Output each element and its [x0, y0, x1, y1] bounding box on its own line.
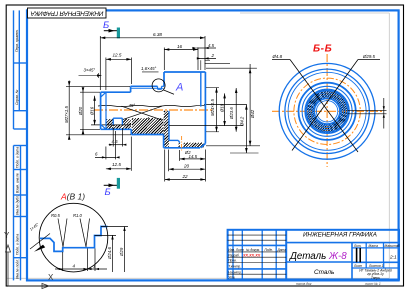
svg-text:Дата: Дата	[277, 248, 287, 252]
svg-text:3×45°: 3×45°	[84, 67, 96, 72]
dimension: 12.5 top left	[106, 58, 131, 91]
svg-text:Листов 1: Листов 1	[368, 264, 383, 268]
dimension: 22 bottom	[165, 150, 206, 182]
svg-text:Ø29: Ø29	[119, 247, 124, 257]
left table verticals	[232, 230, 234, 280]
small width dimension right of section	[348, 98, 387, 129]
section marker B bottom	[104, 178, 120, 198]
chamfer line left cylinder	[105, 92, 107, 129]
svg-text:Ø42: Ø42	[250, 109, 255, 119]
svg-text:14.5: 14.5	[189, 154, 198, 159]
svg-text:20: 20	[183, 164, 190, 169]
right rotated dimension M24x1.5	[216, 88, 218, 132]
svg-text:Масса: Масса	[369, 244, 379, 248]
svg-text:Сталь: Сталь	[314, 269, 334, 276]
svg-text:Н.контр.: Н.контр.	[228, 271, 242, 275]
svg-text:Подп. и дата: Подп. и дата	[16, 147, 20, 168]
orange centerline main view	[94, 109, 214, 111]
left rotated dimension D20	[82, 90, 84, 132]
svg-text:М27×1.5: М27×1.5	[64, 106, 69, 123]
detail dimension D29	[101, 227, 128, 273]
left strip upper box (graph columns)	[14, 10, 28, 129]
svg-text:X: X	[48, 273, 54, 282]
dimension: 2 top right	[198, 57, 216, 59]
left rotated dimension M27x1.5	[66, 81, 131, 138]
svg-text:1,6×45°: 1,6×45°	[141, 66, 157, 71]
right rotated dimension D18	[224, 93, 226, 126]
svg-text:Б: Б	[105, 187, 111, 198]
svg-text:Разраб.: Разраб.	[228, 253, 240, 257]
svg-text:2:1: 2:1	[389, 254, 397, 260]
svg-text:Тверь: Тверь	[371, 276, 380, 280]
svg-text:Б: Б	[103, 20, 109, 31]
svg-text:22: 22	[182, 174, 189, 179]
svg-text:Взам. инв.№: Взам. инв.№	[16, 173, 20, 193]
svg-text:ХХ.ХХ.ХХ: ХХ.ХХ.ХХ	[242, 253, 261, 257]
left table blue rows	[228, 244, 287, 246]
svg-text:Ø29.5: Ø29.5	[362, 54, 376, 59]
svg-text:Инв.№ дубл.: Инв.№ дубл.	[16, 195, 20, 215]
svg-text:Y: Y	[4, 231, 10, 240]
wavy break line	[98, 105, 206, 106]
small hole centerline	[181, 136, 183, 151]
detail dimension 4 and 1	[55, 249, 107, 272]
svg-text:4.5: 4.5	[208, 43, 215, 48]
svg-text:Деталь Ж-8: Деталь Ж-8	[289, 251, 347, 262]
dimension: 38 top	[100, 36, 205, 90]
svg-text:Ø20: Ø20	[78, 106, 83, 116]
svg-text:лист № 1: лист № 1	[364, 282, 381, 286]
svg-text:Масштаб: Масштаб	[385, 244, 400, 248]
right rotated dimension D23.6	[235, 88, 237, 132]
svg-text:А: А	[175, 82, 183, 94]
svg-text:ИНЖЕНЕРНАЯ ГРАФИКА: ИНЖЕНЕРНАЯ ГРАФИКА	[31, 9, 104, 16]
svg-text:Ø18: Ø18	[219, 103, 224, 113]
thread runout groove at step	[158, 86, 165, 89]
svg-text:№ докум.: № докум.	[246, 248, 260, 252]
chamfer leader 1x45	[30, 234, 50, 250]
svg-text:Изм. Лист: Изм. Лист	[228, 248, 244, 252]
svg-text:Лит.: Лит.	[353, 244, 362, 248]
dimension: 12.5 bottom left	[106, 137, 131, 171]
dimension: 16	[164, 48, 198, 71]
svg-text:6.38: 6.38	[153, 32, 162, 37]
svg-text:Утв.: Утв.	[228, 276, 235, 280]
svg-text:45°: 45°	[129, 103, 136, 108]
svg-text:Справ. №: Справ. №	[15, 89, 19, 105]
svg-text:Подп. и дата: Подп. и дата	[16, 234, 20, 255]
svg-text:12.5: 12.5	[113, 53, 122, 58]
flange right groove line	[200, 72, 202, 107]
internal groove pi-shape	[113, 118, 122, 125]
dimension: 20 bottom	[169, 150, 206, 172]
left strip tiny rotated texts	[15, 29, 20, 279]
thread thin line	[131, 87, 164, 89]
svg-text:16: 16	[177, 44, 183, 49]
left strip lower box (graph columns)	[14, 146, 28, 281]
svg-text:Пров.: Пров.	[228, 259, 237, 263]
svg-text:12.5: 12.5	[112, 162, 121, 167]
section marker B top	[103, 20, 120, 38]
bore line black	[91, 124, 131, 126]
detail dimension D24.6	[95, 235, 117, 272]
svg-text:Ø4.2: Ø4.2	[239, 116, 244, 127]
top-left rotated stamp box	[28, 8, 107, 18]
dimension: 14.5 bottom	[180, 150, 206, 161]
counterbore shelf	[169, 140, 180, 142]
counterbore left wall	[168, 111, 170, 141]
part outline: middle threaded section	[131, 86, 164, 134]
svg-text:4.5: 4.5	[112, 139, 119, 144]
svg-text:R0.5: R0.5	[51, 213, 61, 218]
svg-text:R1.0: R1.0	[73, 213, 83, 218]
part outline: right flange	[164, 72, 206, 148]
svg-text:А(В 1): А(В 1)	[60, 192, 85, 202]
detail circle	[39, 203, 108, 272]
chamfer corner diagonals	[101, 92, 106, 97]
svg-text:ИНЖЕНЕРНАЯ ГРАФИКА: ИНЖЕНЕРНАЯ ГРАФИКА	[303, 231, 377, 238]
section B-B bolt circle orange	[294, 78, 360, 144]
left table thin rows	[228, 235, 287, 274]
leader diameter line right	[292, 60, 380, 151]
svg-text:Т.контр.: Т.контр.	[228, 264, 241, 268]
svg-text:2: 2	[211, 53, 215, 58]
svg-text:Б-Б: Б-Б	[313, 44, 332, 55]
svg-text:Ø4.8: Ø4.8	[272, 54, 283, 59]
left rotated dimension D16	[94, 96, 96, 125]
svg-text:Инв.№ подл.: Инв.№ подл.	[16, 259, 20, 279]
hatching of sectioned walls	[106, 111, 204, 148]
detail callout circle A	[152, 79, 165, 92]
right rotated dimension D4.2	[230, 105, 259, 153]
internal thread line right flange	[169, 125, 243, 127]
dimension: 6 bottom left	[95, 156, 116, 158]
svg-text:Ø23.6: Ø23.6	[229, 107, 234, 120]
extension lines right dims	[206, 88, 219, 132]
section B-B centerlines	[326, 54, 328, 167]
svg-text:Перв. примен.: Перв. примен.	[15, 29, 19, 52]
name section	[286, 242, 399, 244]
lit sub-columns	[357, 248, 361, 262]
svg-text:Ø16: Ø16	[90, 106, 95, 116]
leader diameter line left	[272, 60, 358, 153]
section B-B circles	[279, 63, 375, 159]
svg-text:Подп.: Подп.	[265, 248, 274, 252]
cone transition lines in bore	[122, 106, 163, 120]
svg-text:Ø24.6: Ø24.6	[107, 246, 112, 260]
part outline: left cylinder	[101, 92, 132, 129]
svg-text:насов.дог: насов.дог	[296, 282, 312, 286]
UCS icon	[6, 245, 50, 289]
detail blue profile	[40, 227, 108, 252]
right rotated dimension D42	[206, 64, 260, 146]
svg-text:Лист: Лист	[353, 264, 363, 268]
right small cells	[352, 247, 399, 249]
dimension: 4.5 top right	[196, 47, 216, 49]
svg-text:М24×1.5: М24×1.5	[210, 99, 215, 116]
dimension: 4.5 bottom left	[109, 128, 124, 147]
